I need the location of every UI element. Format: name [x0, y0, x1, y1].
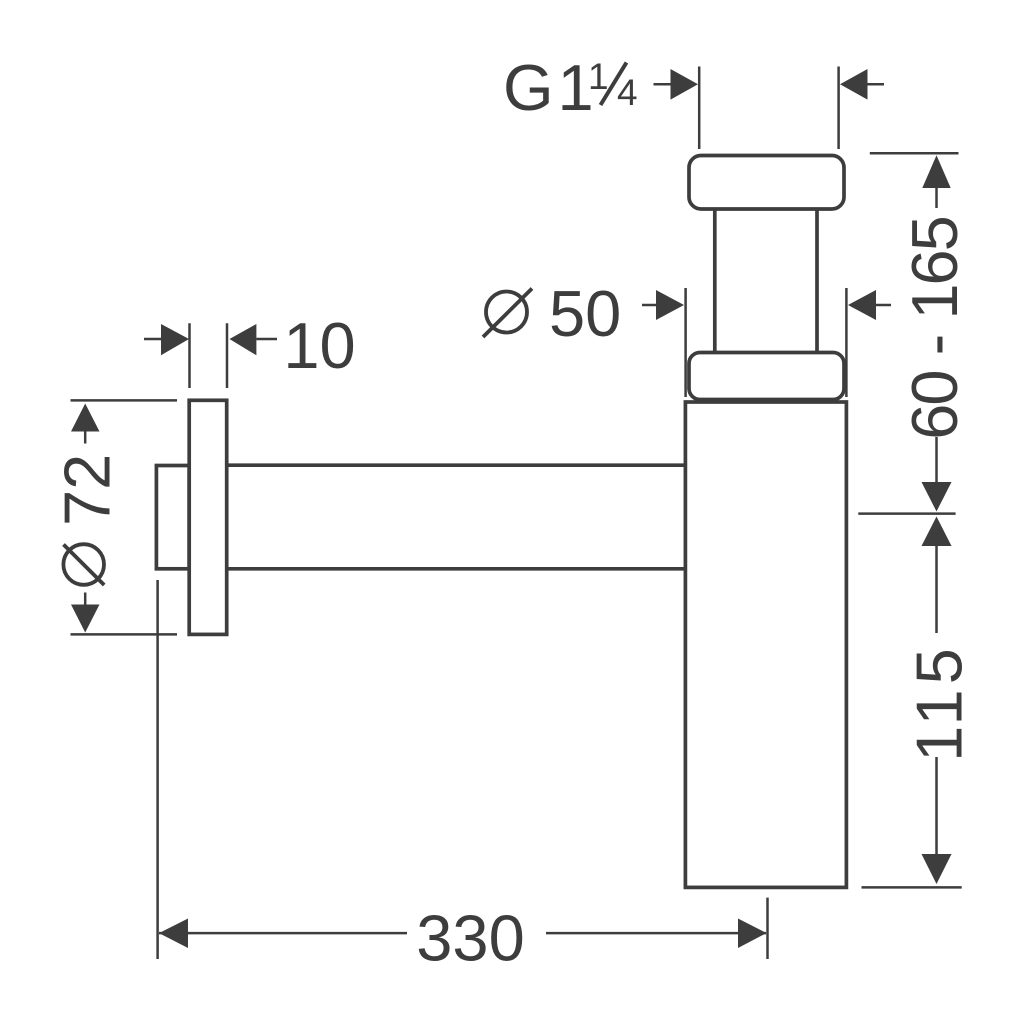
wire 10 extension lines [190, 323, 228, 388]
node diameter 50 label [483, 277, 621, 350]
wire 330 dimension line right segment [546, 932, 766, 935]
node trap body [685, 402, 846, 887]
node G1 1/4 left arrow [654, 69, 699, 100]
node 115 top arrow [922, 517, 952, 634]
node 60-165 label [898, 217, 971, 440]
node 10 right arrow [230, 324, 278, 355]
node 115 bottom arrow [922, 757, 952, 884]
node top nut flange [689, 156, 844, 210]
node lower nut flange [689, 353, 844, 400]
wire 60-165 top extension line [870, 152, 959, 155]
node 330 right arrow [738, 919, 767, 949]
wire 330 left extension line [156, 580, 159, 959]
node diameter 72 label [51, 454, 124, 585]
svg-text:1: 1 [588, 56, 609, 97]
svg-text:10: 10 [283, 309, 355, 382]
node G1 1/4 label [503, 51, 638, 124]
node 330 left arrow [159, 919, 188, 949]
node wall stub [156, 466, 189, 569]
svg-text:330: 330 [416, 902, 524, 975]
node diameter 72 bottom arrow [71, 593, 100, 633]
wire diameter 50 left extension line [684, 288, 687, 397]
node wall flange [189, 400, 227, 634]
svg-text:72: 72 [51, 454, 124, 526]
wire diameter 72 top extension line [71, 399, 178, 402]
node diameter 72 top arrow [71, 404, 100, 444]
svg-text:50: 50 [549, 277, 621, 350]
node 60-165 top arrow [922, 155, 950, 208]
node G1 1/4 right arrow [840, 69, 884, 100]
svg-text:115: 115 [902, 643, 975, 762]
wire 60-165 mid extension line [858, 512, 955, 515]
node 10 left arrow [144, 324, 189, 355]
svg-text:4: 4 [617, 72, 638, 113]
svg-text:G1: G1 [503, 51, 598, 124]
node 60-165 bottom arrow [922, 437, 952, 512]
node diameter 50 left arrow [642, 290, 684, 320]
node 115 label [902, 643, 975, 762]
wire vertical pipe [715, 209, 817, 353]
wire 330 dimension line left segment [159, 932, 407, 935]
node diameter 50 right arrow [848, 290, 891, 320]
wire horizontal inlet pipe [227, 465, 685, 569]
wire 115 bottom extension line [862, 886, 962, 889]
svg-text:60 - 165: 60 - 165 [898, 217, 971, 440]
wire G1 1/4 extension lines [699, 67, 838, 150]
wire diameter 72 bottom extension line [71, 633, 178, 636]
wire diameter 50 right extension line [845, 288, 848, 397]
wire 330 right extension line [766, 898, 769, 959]
